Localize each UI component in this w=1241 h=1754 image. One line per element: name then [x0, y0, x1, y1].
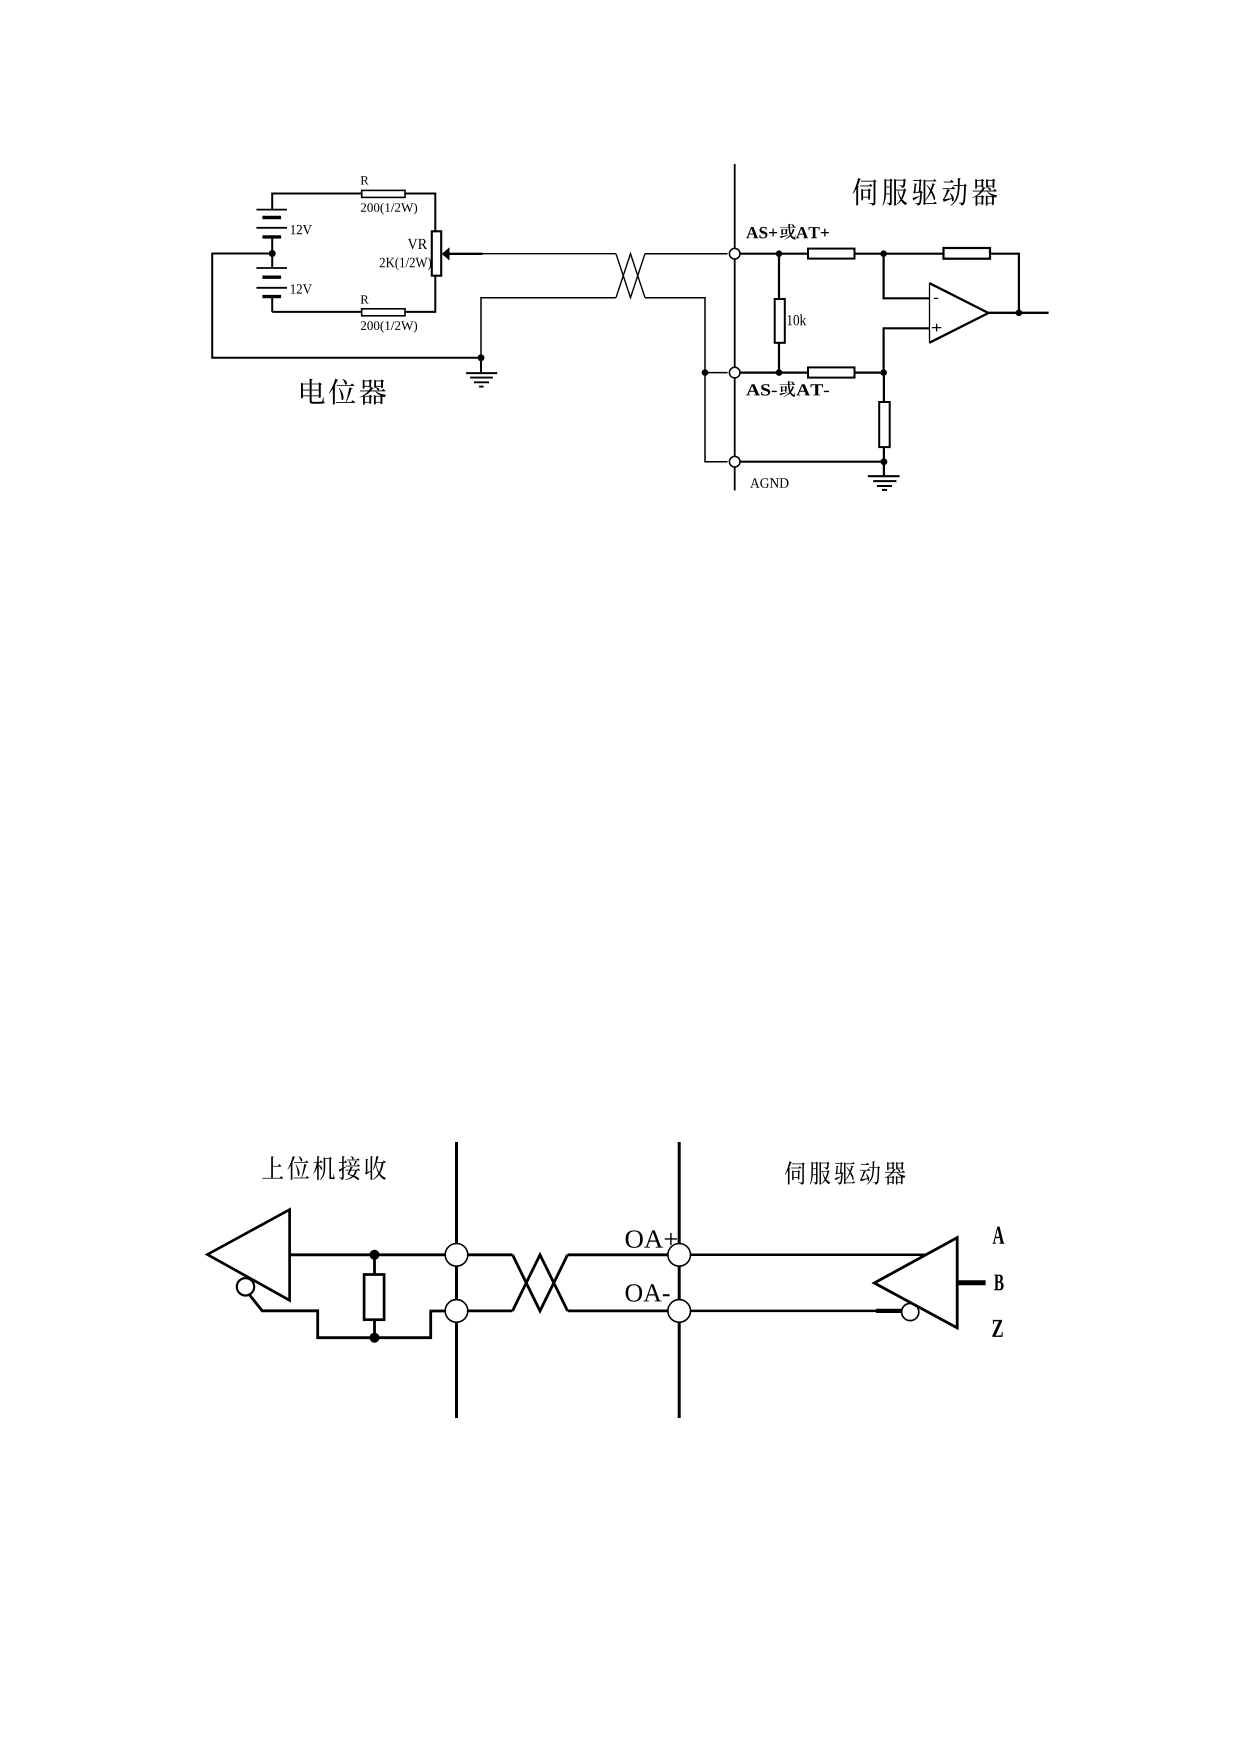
receiver U2 triangle	[207, 1210, 289, 1301]
ground symbol left	[466, 358, 497, 387]
terminal AGND circle	[729, 456, 740, 467]
terminal circle servo OA-	[668, 1300, 691, 1323]
label "或" (or), AS+ row	[780, 224, 796, 240]
label pin "A"	[993, 1227, 1005, 1244]
wire left return loop	[212, 254, 481, 358]
wire top loop (battery top to R1)	[272, 193, 362, 195]
junction op-amp non-inverting branch	[880, 369, 887, 376]
junction termination resistor bottom	[370, 1333, 380, 1343]
wire receiver input (upper)	[290, 1253, 446, 1256]
label title "伺服驱动器" (servo drive)	[852, 178, 997, 206]
wire R4 to output corner	[990, 254, 1019, 313]
wire host terminals to twist	[468, 1255, 513, 1311]
label R1 value "200(1/2W)"	[361, 203, 417, 215]
twisted pair crossover (top diagram)	[616, 254, 645, 298]
junction output node	[1016, 310, 1023, 317]
label block title "电位器" (potentiometer)	[301, 379, 386, 405]
label "AT-"	[796, 384, 829, 395]
resistor R4 box (feedback)	[944, 248, 991, 259]
label "AGND"	[750, 478, 788, 488]
junction on AS- branch	[702, 369, 709, 376]
wire R5 to non-inverting branch	[855, 372, 884, 374]
wire R6 top lead	[883, 373, 885, 402]
battery BT2 12V plates	[256, 268, 287, 297]
junction AGND ground node	[881, 458, 888, 465]
label BT1 "12V"	[291, 225, 312, 235]
wire R3 to R4	[855, 253, 944, 255]
resistor R2 box	[362, 309, 405, 316]
wire twist to servo terminals	[568, 1255, 668, 1311]
wire termination resistor top lead	[373, 1255, 376, 1275]
label VR ref "VR"	[408, 239, 427, 249]
op-amp minus sign	[934, 297, 938, 299]
receiver inversion bubble	[237, 1278, 254, 1295]
wire non-inverting input	[884, 328, 930, 372]
junction 10k bottom	[776, 369, 783, 376]
wire wiper to twisted pair	[483, 253, 617, 255]
label R1 ref "R"	[361, 176, 369, 184]
terminal AS+ circle	[729, 248, 740, 259]
terminal AS- circle	[729, 367, 740, 378]
label "AS-"	[746, 384, 777, 396]
wire output B	[958, 1280, 985, 1285]
label pin "Z"	[992, 1320, 1002, 1337]
terminal circle servo OA+	[668, 1244, 691, 1267]
connector boundary line right (servo)	[678, 1142, 681, 1418]
wire AS- terminal to R5	[740, 372, 808, 374]
junction op-amp inverting branch	[880, 250, 887, 257]
resistor 10k vertical box	[775, 299, 785, 343]
wire twist lower branch to AS- / AGND	[645, 298, 728, 462]
junction battery midpoint	[269, 250, 276, 257]
wire OA- to driver bubble	[691, 1310, 902, 1313]
label VR value "2K(1/2W)"	[380, 257, 431, 270]
op-amp U1 triangle	[930, 283, 989, 344]
label R2 ref "R"	[361, 295, 369, 303]
resistor R1 box	[362, 190, 405, 197]
label R2 value "200(1/2W)"	[361, 321, 417, 333]
wire OA+ to driver	[691, 1254, 926, 1257]
label title "伺服驱动器" (servo drive), bottom	[785, 1161, 906, 1185]
wire R2 to battery bottom	[272, 311, 362, 313]
wire inverting input	[884, 254, 930, 299]
junction termination resistor top	[370, 1250, 380, 1260]
op-amp plus sign	[932, 324, 941, 332]
wire battery mid	[271, 239, 273, 268]
wire twist to terminal AS+	[645, 253, 728, 255]
ground symbol right (AGND)	[868, 462, 900, 490]
VR wiper arrow	[442, 247, 450, 260]
connector boundary line (servo drive)	[734, 164, 736, 491]
resistor R7 termination box	[364, 1275, 384, 1320]
wire op-amp output	[988, 312, 1048, 314]
label title "上位机接收" (host receiver)	[262, 1156, 386, 1180]
driver U3 triangle	[874, 1238, 957, 1328]
junction ground node	[478, 354, 485, 361]
terminal circle host upper	[445, 1244, 468, 1267]
resistor R6 vertical box	[879, 402, 890, 447]
wire VR wiper tail	[449, 253, 483, 255]
wire R1 to VR top corner	[405, 194, 435, 232]
wire VR bottom to R2	[405, 276, 435, 312]
wire ground node up to twisted pair lower wire	[481, 298, 616, 358]
twisted pair crossover (bottom diagram)	[513, 1255, 568, 1311]
label BT2 "12V"	[291, 284, 312, 294]
junction 10k top	[776, 250, 783, 257]
wire termination resistor bottom lead	[373, 1320, 376, 1338]
driver inversion bubble	[902, 1303, 919, 1320]
wire branch to terminal AS-	[705, 372, 728, 374]
resistor R3 box (AS+ series)	[808, 249, 855, 259]
label "OA+"	[626, 1230, 678, 1248]
label "或" (or), AS- row	[779, 381, 795, 397]
label pin "B"	[994, 1275, 1004, 1291]
wire R6 bottom lead	[883, 447, 885, 462]
wire battery column top	[271, 193, 273, 210]
wire 10k leads	[778, 254, 780, 373]
wire AGND terminal to ground	[740, 461, 884, 463]
label "10k"	[788, 314, 807, 325]
label "AS+"	[746, 227, 777, 239]
wire bubble to lower rail	[249, 1295, 445, 1338]
battery BT1 12V plates	[256, 210, 287, 237]
wire battery column bottom	[271, 297, 273, 312]
label "AT+"	[796, 227, 829, 238]
resistor R5 box (AS- series)	[808, 367, 855, 377]
connector boundary line left (host)	[455, 1142, 458, 1418]
terminal circle host lower	[445, 1300, 468, 1323]
wire AS+ terminal to R3	[740, 253, 808, 255]
potentiometer VR box	[432, 231, 441, 275]
label "OA-"	[626, 1284, 670, 1302]
